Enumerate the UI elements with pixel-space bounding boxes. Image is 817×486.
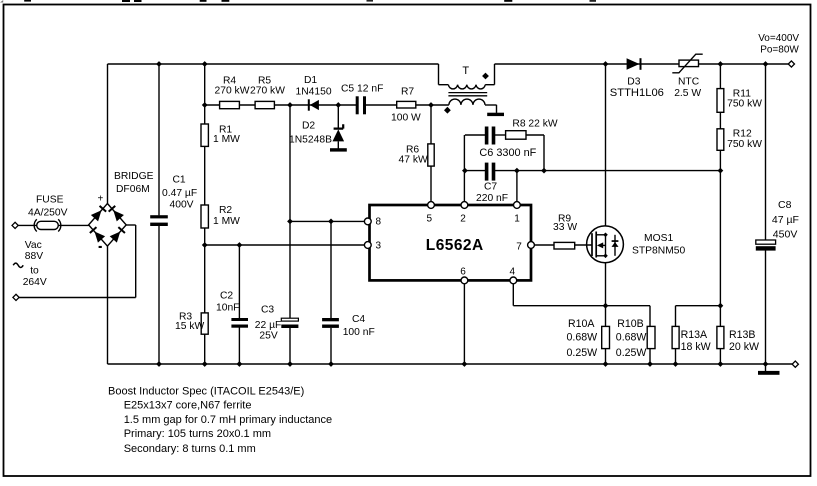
svg-text:Vac: Vac — [25, 240, 42, 251]
svg-text:33 W: 33 W — [553, 222, 577, 233]
svg-text:2.5 W: 2.5 W — [674, 88, 701, 99]
svg-text:8: 8 — [376, 217, 382, 228]
svg-text:to: to — [30, 266, 39, 277]
svg-text:E25x13x7 core,N67 ferrite: E25x13x7 core,N67 ferrite — [124, 400, 252, 412]
svg-text:7: 7 — [516, 242, 522, 253]
svg-text:0.68W: 0.68W — [567, 332, 598, 344]
svg-text:C4: C4 — [352, 314, 365, 325]
svg-text:FUSE: FUSE — [36, 195, 64, 206]
svg-text:C3: C3 — [261, 305, 274, 316]
svg-text:47 µF: 47 µF — [772, 214, 799, 226]
svg-text:1: 1 — [514, 214, 520, 225]
svg-text:100 W: 100 W — [391, 112, 421, 123]
svg-text:STP8NM50: STP8NM50 — [632, 245, 685, 256]
svg-text:Boost Inductor Spec (ITACOIL E: Boost Inductor Spec (ITACOIL E2543/E) — [108, 385, 304, 397]
svg-text:DF06M: DF06M — [116, 184, 150, 195]
svg-text:4A/250V: 4A/250V — [28, 208, 68, 219]
svg-text:10nF: 10nF — [216, 303, 239, 314]
svg-text:D2: D2 — [302, 121, 315, 132]
svg-text:+: + — [98, 194, 104, 205]
svg-text:D1: D1 — [304, 75, 317, 86]
svg-text:0.68W: 0.68W — [616, 332, 647, 344]
svg-text:22 µF: 22 µF — [255, 320, 282, 331]
svg-text:R2: R2 — [219, 205, 232, 216]
svg-text:Secondary: 8 turns 0.1 mm: Secondary: 8 turns 0.1 mm — [124, 443, 256, 455]
svg-text:1N5248B: 1N5248B — [289, 135, 332, 146]
svg-text:6: 6 — [460, 267, 466, 278]
svg-text:1N4150: 1N4150 — [296, 86, 332, 97]
svg-text:T: T — [462, 65, 469, 77]
svg-text:R7: R7 — [401, 87, 414, 98]
svg-text:MOS1: MOS1 — [644, 233, 673, 244]
svg-text:BRIDGE: BRIDGE — [114, 171, 154, 182]
svg-text:1.5 mm gap for 0.7 mH primary: 1.5 mm gap for 0.7 mH primary inductance — [124, 414, 332, 426]
svg-text:Po=80W: Po=80W — [760, 45, 799, 56]
svg-text:750 kW: 750 kW — [727, 99, 762, 110]
svg-text:5: 5 — [427, 214, 433, 225]
svg-text:R12: R12 — [733, 128, 752, 139]
svg-text:3: 3 — [376, 241, 382, 252]
svg-text:220 nF: 220 nF — [476, 193, 508, 204]
svg-text:2: 2 — [460, 214, 466, 225]
svg-text:20 kW: 20 kW — [729, 341, 759, 353]
svg-text:C2: C2 — [220, 290, 233, 301]
svg-text:R10A: R10A — [568, 318, 595, 330]
svg-text:270 kW: 270 kW — [215, 85, 250, 96]
svg-text:L6562A: L6562A — [426, 237, 484, 254]
svg-text:R8 22 kW: R8 22 kW — [512, 118, 557, 129]
svg-text:Vo=400V: Vo=400V — [758, 33, 799, 44]
svg-text:R13A: R13A — [681, 329, 708, 341]
svg-text:750 kW: 750 kW — [727, 139, 762, 150]
svg-text:15 kW: 15 kW — [175, 321, 204, 332]
svg-text:R13B: R13B — [729, 329, 756, 341]
svg-text:4: 4 — [510, 267, 516, 278]
svg-text:C1: C1 — [173, 174, 186, 185]
svg-text:450V: 450V — [773, 229, 798, 241]
svg-text:25V: 25V — [259, 331, 277, 342]
svg-text:C8: C8 — [778, 199, 792, 211]
svg-text:264V: 264V — [23, 277, 47, 288]
svg-text:88V: 88V — [25, 251, 43, 262]
svg-text:18 kW: 18 kW — [681, 341, 711, 353]
svg-text:0.47 µF: 0.47 µF — [162, 188, 197, 199]
svg-text:C5 12 nF: C5 12 nF — [341, 84, 383, 95]
svg-text:1 MW: 1 MW — [213, 134, 240, 145]
svg-text:NTC: NTC — [678, 77, 700, 88]
svg-text:0.25W: 0.25W — [567, 347, 598, 359]
svg-text:0.25W: 0.25W — [616, 347, 647, 359]
svg-text:C7: C7 — [484, 182, 497, 193]
svg-text:400V: 400V — [170, 199, 194, 210]
svg-text:47 kW: 47 kW — [399, 154, 428, 165]
svg-text:C6 3300 nF: C6 3300 nF — [479, 147, 536, 159]
svg-text:STTH1L06: STTH1L06 — [610, 87, 664, 99]
svg-text:270 kW: 270 kW — [250, 85, 285, 96]
svg-text:Primary: 105 turns 20x0.1 mm: Primary: 105 turns 20x0.1 mm — [124, 428, 271, 440]
svg-text:100 nF: 100 nF — [343, 327, 375, 338]
svg-text:R10B: R10B — [617, 318, 644, 330]
svg-text:1 MW: 1 MW — [213, 216, 240, 227]
